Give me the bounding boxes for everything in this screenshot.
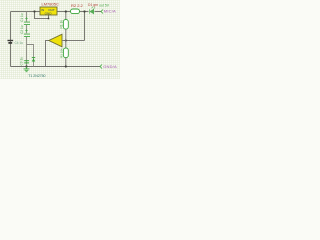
junction dot (65.8,66.5) xyxy=(65,65,67,67)
junction dot (48,18) xyxy=(48,18,50,20)
capacitor C3 bottom xyxy=(20,57,30,66)
LED D1 xyxy=(90,7,95,14)
svg-text:R1 1k: R1 1k xyxy=(60,20,64,29)
wire op-amp right to riser xyxy=(62,40,85,42)
capacitor C2 xyxy=(20,25,30,37)
ground symbol xyxy=(24,67,30,72)
svg-text:R2 2.2: R2 2.2 xyxy=(71,3,84,8)
svg-text:MIC/A: MIC/A xyxy=(104,8,116,13)
resistor R3 xyxy=(60,41,69,67)
svg-text:LM7805C: LM7805C xyxy=(42,2,59,7)
wire bottom rail xyxy=(11,66,101,68)
battery B1 xyxy=(8,40,24,45)
op-amp U1 triangle xyxy=(49,34,62,47)
svg-text:C4 1u: C4 1u xyxy=(15,41,24,45)
svg-text:out 5V: out 5V xyxy=(99,3,110,7)
resistor R1 xyxy=(60,12,69,41)
wire apex net xyxy=(46,41,50,67)
net flag bottom right xyxy=(100,64,117,69)
svg-text:C1 1u: C1 1u xyxy=(20,13,24,22)
wire left border xyxy=(10,12,12,67)
junction dot (34,11) xyxy=(33,10,35,12)
svg-text:C2 1u: C2 1u xyxy=(20,25,24,34)
junction dot (84,11) xyxy=(83,10,85,12)
resistor R2 xyxy=(71,3,84,14)
svg-text:GND/A: GND/A xyxy=(103,64,117,69)
wire top rail xyxy=(11,11,102,13)
wire capacitor column lower xyxy=(26,37,28,67)
junction dot (66,40) xyxy=(65,39,67,41)
wire riser to top rail xyxy=(84,12,86,41)
svg-text:R3 10k: R3 10k xyxy=(60,48,64,58)
svg-text:C3 1u: C3 1u xyxy=(20,57,24,66)
svg-text:GND: GND xyxy=(45,11,53,15)
regulator U2 LM7805 xyxy=(40,2,59,16)
diode D2 on branch xyxy=(32,57,35,62)
junction dot (26.5,66.5) xyxy=(25,65,27,67)
wire GND stub of regulator xyxy=(35,12,49,19)
junction dot (65.8,11.5) xyxy=(65,10,67,12)
net flag top right xyxy=(101,8,116,13)
capacitor column C1 xyxy=(20,12,30,26)
svg-text:T1 2N2750: T1 2N2750 xyxy=(28,74,45,78)
wire branch elbow to D2 xyxy=(27,45,34,67)
svg-text:D1 grn: D1 grn xyxy=(88,3,98,7)
